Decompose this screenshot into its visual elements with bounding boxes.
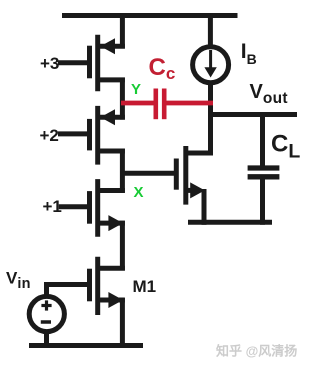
- wire: rail to IB current source: [208, 15, 213, 48]
- transistor +1 (NMOS cascode): [59, 179, 125, 237]
- wire: M1 source to ground: [120, 298, 125, 346]
- current source IB: [193, 47, 229, 83]
- svg-text:CL: CL: [271, 130, 300, 162]
- svg-text:+2: +2: [40, 126, 59, 145]
- wire: Vin source to ground: [44, 330, 49, 346]
- svg-text:Cc: Cc: [149, 54, 176, 83]
- wire: node Y to CC (red): [121, 101, 154, 106]
- top power rail VDD: [62, 13, 238, 18]
- svg-text:+3: +3: [40, 54, 59, 73]
- transistor M1 (input NMOS): [47, 257, 125, 315]
- wire: IB bottom to Vout node and drain of right FET: [208, 82, 213, 156]
- svg-text:Vout: Vout: [250, 81, 288, 107]
- capacitor CL (load): [248, 112, 280, 225]
- ground bar (right): [188, 220, 272, 225]
- svg-text:IB: IB: [241, 40, 257, 67]
- svg-text:+1: +1: [43, 197, 62, 216]
- source Vin (input voltage source): [29, 296, 64, 331]
- wire: +3 source to +2 drain (node Y): [120, 78, 125, 120]
- wire: +2 source to +1 drain (node X): [120, 149, 125, 193]
- wire: Vout output line: [208, 112, 297, 117]
- svg-text:M1: M1: [133, 277, 157, 296]
- svg-text:Y: Y: [131, 81, 141, 98]
- capacitor CC (compensation, red): [154, 89, 167, 120]
- transistor +3 (top PMOS cascode): [58, 35, 125, 92]
- transistor M2 (right NMOS, second stage): [176, 146, 213, 205]
- wire: node X branch to right FET gate: [120, 171, 179, 176]
- wire: +1 source to M1 drain: [120, 221, 125, 271]
- svg-text:知乎 @风清扬: 知乎 @风清扬: [216, 344, 297, 359]
- wire: right FET source to ground: [202, 189, 207, 225]
- svg-text:Vin: Vin: [6, 268, 31, 292]
- transistor +2 (PMOS cascode): [58, 106, 125, 165]
- svg-text:X: X: [134, 184, 144, 201]
- wire: rail to +3 drain: [120, 13, 125, 49]
- ground bar (left): [29, 343, 143, 348]
- wire: CC to Vout node (red): [166, 101, 213, 106]
